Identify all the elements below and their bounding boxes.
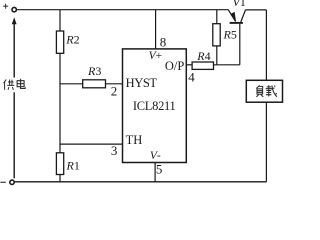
wire bottom rail <box>15 181 267 183</box>
pin 4 wire (O/P to R4) <box>186 64 192 66</box>
transistor Q1 collector line <box>241 10 246 22</box>
resistor R5 body <box>213 24 220 46</box>
pin 5 wire <box>154 163 156 182</box>
svg-text:O/P: O/P <box>165 59 185 73</box>
op-amp / IC U1 ICL8211 box <box>123 49 187 163</box>
svg-text:ICL8211: ICL8211 <box>133 99 176 113</box>
load box <box>246 80 282 102</box>
wire collector vertical to load <box>265 10 267 80</box>
negative terminal circle <box>10 180 14 184</box>
svg-text:R2: R2 <box>65 33 79 47</box>
wire divider column top (rail to R2) <box>59 10 61 32</box>
resistor R2 body <box>56 31 63 53</box>
wire R5 bottom lead <box>216 46 218 65</box>
transistor Q1 base bar <box>230 22 243 24</box>
svg-text:V+: V+ <box>149 50 163 62</box>
supply arrow line lower segment <box>13 92 15 178</box>
svg-text:R3: R3 <box>87 64 101 78</box>
svg-text:R5: R5 <box>223 28 237 42</box>
svg-text:2: 2 <box>111 83 118 98</box>
supply arrow line upper segment <box>13 23 15 78</box>
svg-text:V-: V- <box>150 150 161 162</box>
label 供电 (supply) char 电 <box>17 79 25 89</box>
positive terminal circle <box>12 7 16 11</box>
svg-text:HYST: HYST <box>126 76 158 90</box>
wire R3 left segment <box>60 83 83 85</box>
transistor Q1 emitter arrowhead <box>230 12 236 21</box>
svg-text:8: 8 <box>160 34 167 49</box>
wire collector top horizontal <box>245 9 266 11</box>
svg-text:TH: TH <box>126 133 143 147</box>
wire TH pin 3 horizontal <box>60 143 123 145</box>
svg-text:3: 3 <box>111 143 118 158</box>
wire R3 right segment to pin 2 <box>106 83 123 85</box>
svg-text:4: 4 <box>188 69 195 84</box>
label 负载 (load) char 负 <box>256 85 263 97</box>
resistor R3 body <box>83 80 106 88</box>
svg-text:R1: R1 <box>66 158 80 172</box>
wire load to bottom rail <box>265 102 267 182</box>
wire top rail <box>17 9 229 11</box>
transistor Q1 base lead down <box>239 24 241 65</box>
resistor R4 body <box>192 62 213 69</box>
label 负载 (load) char 载 <box>266 85 277 97</box>
resistor R1 body <box>56 153 63 175</box>
svg-text:V1: V1 <box>233 0 246 9</box>
minus terminal label <box>0 181 5 183</box>
svg-text:R4: R4 <box>196 49 210 63</box>
wire divider column mid (R2 to R3 junction to TH junction) <box>59 53 61 144</box>
label 供电 (supply) char 供 <box>4 80 15 90</box>
wire R5 top lead <box>216 10 218 24</box>
plus terminal label <box>3 4 8 9</box>
wire R1 bottom lead <box>59 175 61 182</box>
svg-text:5: 5 <box>156 162 163 177</box>
supply arrowhead <box>12 17 17 24</box>
transistor Q1 emitter line <box>228 10 235 22</box>
wire R1 top lead <box>59 144 61 153</box>
pin 8 wire <box>155 10 157 49</box>
wire R4 to base lead <box>214 64 240 66</box>
